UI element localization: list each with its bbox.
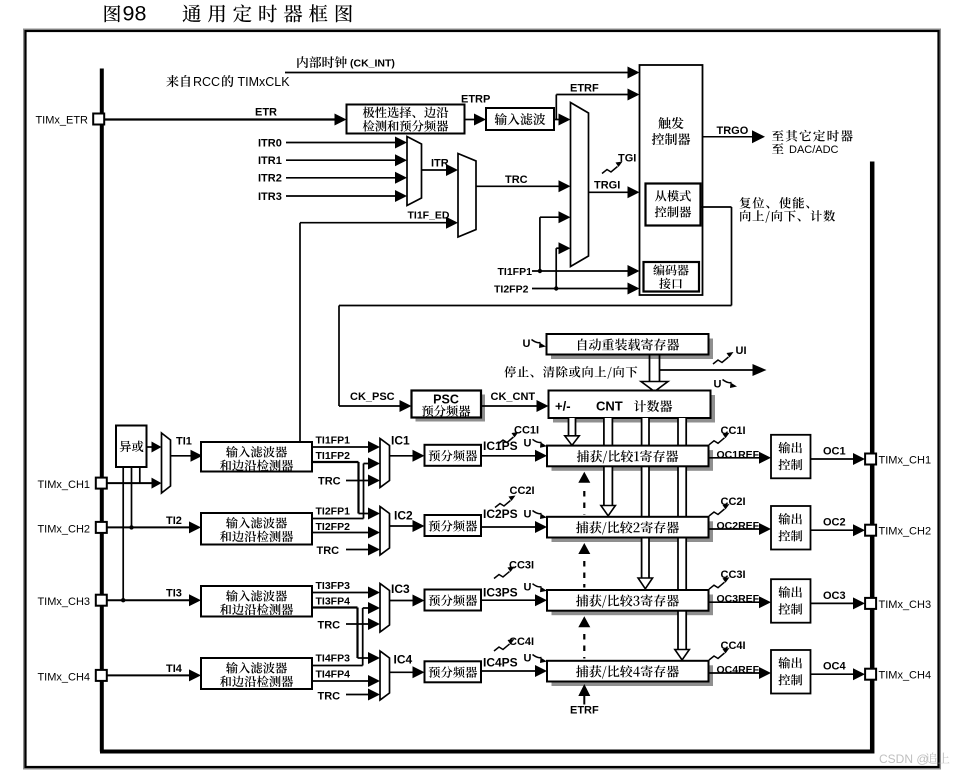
svg-text:CC2I: CC2I [721, 496, 746, 508]
svg-text:(CK_INT): (CK_INT) [350, 58, 395, 70]
pin TIMx_CH1 (right) [865, 454, 876, 465]
box output control CH2 (输出控制) [771, 506, 811, 550]
wire TI2FP2 [312, 532, 370, 534]
pin TIMx_CH4 (right) [865, 669, 876, 680]
svg-text:PSC: PSC [433, 393, 459, 407]
svg-text:CK_PSC: CK_PSC [350, 391, 395, 403]
svg-text:TI2FP2: TI2FP2 [316, 521, 351, 533]
wire TI1FP2 down to IC2 [312, 461, 359, 463]
svg-text:TI4FP4: TI4FP4 [316, 669, 351, 681]
label CC3I capture event (left) [494, 572, 510, 579]
svg-text:TI3FP4: TI3FP4 [316, 596, 351, 608]
wire TI2FP1 up to IC1 [312, 518, 364, 520]
svg-text:OC3REF: OC3REF [717, 593, 760, 605]
svg-text:98: 98 [123, 2, 147, 26]
wire TRC stub CH3 [346, 623, 370, 625]
wire IC4 to prescaler [390, 671, 415, 673]
wire ITR0 [286, 142, 397, 144]
svg-text:U: U [714, 379, 722, 391]
node XOR tap CH3 [121, 598, 125, 602]
label CC2I capture event (right) [709, 509, 725, 516]
svg-text:IC2PS: IC2PS [483, 507, 518, 521]
svg-text:TRC: TRC [318, 691, 341, 703]
label CC3I capture event (right) [709, 582, 725, 589]
wire TI3FP3 [312, 592, 370, 594]
svg-text:IC4: IC4 [394, 653, 413, 667]
svg-text:ETR: ETR [255, 107, 277, 119]
wire right bus (thick vertical) [870, 162, 875, 754]
svg-text:IC3PS: IC3PS [483, 586, 518, 600]
wire TI1F_ED [300, 222, 448, 224]
svg-text:TIMxCLK: TIMxCLK [238, 75, 291, 89]
box capture/compare register 2 (捕获/比较2寄存器) [547, 517, 709, 538]
wire IC2PS to capture register [481, 526, 537, 528]
box prescaler CH4 (预分频器) [425, 661, 482, 682]
wire slave-mode control to clock path [701, 206, 732, 208]
svg-text:ETRP: ETRP [461, 94, 490, 106]
box CNT counter (CNT计数器) [549, 391, 711, 419]
wire ITR3 [286, 195, 397, 197]
wire IC1 to prescaler [390, 455, 415, 457]
mux TI1 xor select [162, 433, 171, 493]
svg-text:CC1I: CC1I [514, 425, 539, 437]
wire ETR [105, 118, 337, 120]
wire TI1FP1 up to mux [539, 217, 541, 271]
box capture/compare 2 shadow [552, 521, 714, 542]
svg-text:TIMx_CH2: TIMx_CH2 [879, 526, 932, 538]
svg-text:TI2FP2: TI2FP2 [494, 284, 529, 296]
svg-text:RCC: RCC [193, 75, 220, 89]
wire CK_CNT [481, 405, 539, 407]
box input filter & edge detector CH1 [201, 442, 312, 472]
mux IC4 select [380, 651, 390, 700]
wire OC4REF [709, 672, 762, 674]
box slave mode controller (从模式控制器) [646, 184, 701, 226]
box input filter & edge detector CH4 [201, 658, 312, 689]
wire TI2 [107, 526, 191, 528]
pin TIMx_CH2 (left) [96, 522, 107, 533]
svg-text:TRC: TRC [505, 174, 528, 186]
svg-text:ITR3: ITR3 [258, 191, 282, 203]
box encoder interface (编码器接口) [644, 262, 700, 292]
label 复位、使能、向上/向下、计数 [740, 197, 810, 209]
svg-text:IC1: IC1 [391, 434, 410, 448]
wire ETRF up into CC4 [578, 684, 590, 696]
label CC4I capture event (left) [494, 644, 510, 651]
pin TIMx_CH3 (right) [865, 598, 876, 609]
svg-text:U: U [524, 653, 532, 665]
wire OC1 [811, 458, 856, 460]
wire OC3REF [709, 601, 762, 603]
label 来自RCC的TIMxCLK [166, 75, 190, 87]
svg-text:CC3I: CC3I [721, 569, 746, 581]
svg-text:TI1: TI1 [176, 436, 192, 448]
wire TI2FP2 stub to encoder [532, 288, 630, 290]
wire CH1 to xor mux [107, 482, 154, 484]
wire ITR1 [286, 159, 397, 161]
svg-text:TI2FP1: TI2FP1 [316, 506, 351, 518]
node TI2FP2 junction [554, 286, 558, 290]
svg-text:ETRF: ETRF [570, 705, 599, 717]
wire TRGI [589, 191, 630, 193]
box auto-reload register shadow [551, 339, 713, 360]
svg-text:CSDN @: CSDN @ [879, 752, 929, 766]
mux IC1 select [380, 439, 390, 488]
wire IC2 to prescaler [390, 525, 415, 527]
box prescaler CH1 (预分频器) [425, 445, 482, 466]
svg-text:ITR0: ITR0 [258, 137, 282, 149]
svg-text:CC4I: CC4I [509, 636, 534, 648]
svg-text:OC1: OC1 [823, 446, 846, 458]
wire bottom bus (thick horizontal) [100, 750, 872, 754]
box output control CH1 (输出控制) [771, 435, 811, 479]
label CC4I capture event (right) [709, 653, 725, 660]
label 至其它定时器 / 至 DAC/ADC [772, 130, 853, 142]
svg-text:TIMx_CH3: TIMx_CH3 [879, 599, 932, 611]
wire TI3 [107, 599, 191, 601]
wire TRC [476, 185, 561, 187]
label 内部时钟 (CK_INT) [297, 56, 347, 68]
svg-text:CC2I: CC2I [510, 485, 535, 497]
wire TI2FP2 up to mux [555, 248, 557, 288]
svg-text:TIMx_CH3: TIMx_CH3 [37, 596, 90, 608]
wire dashed capture trigger (between CC2 and CC3) [578, 543, 590, 554]
node XOR tap CH2 [129, 525, 133, 529]
wire TRC stub CH2 [346, 549, 370, 551]
arrow counter to CC4 (hollow column D) [678, 418, 686, 650]
svg-text:ITR1: ITR1 [258, 155, 282, 167]
svg-text:TI1FP2: TI1FP2 [316, 450, 351, 462]
wire IC4PS to capture register [481, 670, 537, 672]
box capture/compare register 3 (捕获/比较3寄存器) [547, 590, 709, 611]
svg-text:CC3I: CC3I [509, 560, 534, 572]
svg-text:TI4FP3: TI4FP3 [316, 653, 351, 665]
arrow counter to CC1 (hollow column A) [569, 418, 576, 436]
box input filter & edge detector CH2 [201, 513, 312, 545]
svg-text:OC4: OC4 [823, 661, 847, 673]
wire TI1 output [171, 455, 193, 457]
svg-text:TI4: TI4 [166, 663, 183, 675]
svg-text:IC4PS: IC4PS [483, 656, 518, 670]
svg-text:TI3FP3: TI3FP3 [316, 580, 351, 592]
box output control CH4 (输出控制) [771, 650, 811, 694]
box polarity selection (极性选择、边沿检测和预分频器) [347, 105, 465, 134]
svg-text:U: U [523, 338, 531, 350]
svg-text:DAC/ADC: DAC/ADC [789, 144, 839, 156]
svg-text:U: U [524, 509, 532, 521]
svg-text:TI3: TI3 [166, 588, 182, 600]
svg-text:TGI: TGI [618, 153, 636, 165]
label UI with event arrow [713, 357, 729, 364]
svg-text:CC4I: CC4I [721, 640, 746, 652]
wire TI4 [107, 674, 191, 676]
box capture/compare 1 shadow [552, 450, 714, 471]
wire OC1REF [709, 457, 762, 459]
wire TRC stub CH4 [346, 694, 370, 696]
svg-text:TI1FP1: TI1FP1 [316, 435, 351, 447]
wire update event out [660, 369, 753, 371]
box input filter & edge detector CH3 [201, 586, 312, 617]
label CC1I capture event (right) [709, 438, 725, 445]
svg-text:TI1F_ED: TI1F_ED [408, 210, 450, 222]
svg-text:TIMx_CH4: TIMx_CH4 [879, 670, 932, 682]
svg-text:TI1FP1: TI1FP1 [498, 266, 533, 278]
svg-text:CC1I: CC1I [721, 425, 746, 437]
svg-text:TRGI: TRGI [594, 180, 620, 192]
svg-text:U: U [524, 582, 532, 594]
box capture/compare register 1 (捕获/比较1寄存器) [547, 446, 709, 467]
svg-text:OC2: OC2 [823, 517, 846, 529]
svg-text:IC1PS: IC1PS [483, 439, 518, 453]
svg-text:ITR2: ITR2 [258, 173, 282, 185]
wire XOR output to mux [147, 446, 154, 448]
node TI1FP1 junction [538, 269, 542, 273]
wire ITR2 [286, 177, 397, 179]
wire ETRF up branch [555, 95, 557, 120]
box prescaler CH3 (预分频器) [425, 590, 482, 611]
title 图98 通用定时器框图 [105, 5, 121, 22]
svg-text:TRGO: TRGO [717, 125, 749, 137]
svg-text:TRC: TRC [317, 545, 340, 557]
box CNT counter shadow [553, 395, 715, 423]
box capture/compare 3 shadow [552, 595, 714, 616]
svg-text:IC3: IC3 [391, 582, 410, 596]
mux IC2 select [380, 507, 390, 556]
box input filter (输入滤波) [486, 108, 554, 130]
wire TRGO [703, 136, 755, 138]
wire ETRF to trigger mux [554, 119, 561, 121]
wire IC3 to prescaler [390, 600, 415, 602]
label CC2I capture event (left) [495, 501, 511, 508]
box trigger controller (触发控制器) [640, 65, 703, 295]
wire IC1PS to capture register [481, 455, 537, 457]
svg-text:IC2: IC2 [394, 509, 413, 523]
wire OC4 [811, 673, 856, 675]
wire TRC stub CH1 [346, 480, 370, 482]
wire IC3PS to capture register [481, 599, 537, 601]
svg-text:+/-: +/- [555, 399, 571, 414]
mux TRC select [458, 154, 476, 238]
box output control CH3 (输出控制) [771, 579, 811, 623]
wire TI1FP1 stub to encoder [532, 270, 630, 272]
svg-text:TRC: TRC [318, 476, 341, 488]
svg-text:TIMx_CH2: TIMx_CH2 [37, 523, 90, 535]
pin TIMx_ETR [93, 114, 104, 125]
pin TIMx_CH2 (right) [865, 525, 876, 536]
svg-text:U: U [524, 437, 532, 449]
mux IC3 select [380, 584, 390, 633]
label CC1I capture event (left) [498, 437, 514, 444]
mux ITR select [407, 137, 422, 206]
svg-text:TIMx_CH1: TIMx_CH1 [37, 479, 90, 491]
wire XOR taps [122, 467, 124, 600]
svg-text:CK_CNT: CK_CNT [491, 391, 536, 403]
arrow counter to CC2 (hollow column B) [604, 418, 613, 506]
wire CK_INT (internal clock) [285, 72, 630, 74]
label 停止、清除或向上/向下 [504, 366, 637, 379]
wire ITR [422, 169, 449, 171]
pin TIMx_CH3 (left) [96, 595, 107, 606]
wire TI3FP4 down to IC4 [312, 606, 358, 608]
box auto-reload register (自动重装载寄存器) [547, 334, 709, 355]
box capture/compare register 4 (捕获/比较4寄存器) [547, 661, 709, 682]
wire OC3 [811, 602, 856, 604]
box PSC prescaler (PSC预分频器) [412, 391, 482, 418]
arrow counter to CC3 (hollow column C) [642, 418, 649, 578]
svg-text:OC3: OC3 [823, 590, 846, 602]
box prescaler CH2 (预分频器) [425, 515, 482, 536]
wire OC2 [811, 529, 856, 531]
wire dashed capture trigger (between CC3 and CC4) [578, 616, 590, 627]
wire ETRP [465, 119, 477, 121]
pin TIMx_CH1 (left) [96, 478, 107, 489]
svg-text:CNT: CNT [596, 399, 623, 414]
wire TI4FP3 up to IC3 [312, 665, 363, 667]
wire TI1FP1 [312, 446, 370, 448]
wire dashed capture trigger (between CC1 and CC2) [578, 472, 590, 483]
svg-text:UI: UI [736, 345, 747, 357]
box PSC prescaler shadow [416, 395, 486, 422]
svg-text:TI2: TI2 [166, 515, 182, 527]
arrow auto-reload to counter (hollow) [649, 355, 651, 382]
wire TI4FP4 [312, 680, 370, 682]
wire CK_PSC [339, 405, 402, 407]
svg-text:OC1REF: OC1REF [717, 449, 760, 461]
label TGI with event arrow [602, 167, 618, 174]
box capture/compare 4 shadow [552, 665, 714, 686]
wire OC2REF [709, 528, 762, 530]
svg-text:TRC: TRC [318, 620, 341, 632]
svg-text:TIMx_CH4: TIMx_CH4 [37, 671, 90, 683]
pin TIMx_CH4 (left) [96, 670, 107, 681]
wire left bus (thick vertical) [100, 69, 104, 752]
box XOR (异或) [116, 426, 147, 468]
svg-text:TIMx_ETR: TIMx_ETR [35, 115, 88, 127]
svg-text:OC2REF: OC2REF [717, 520, 760, 532]
svg-text:ETRF: ETRF [570, 83, 599, 95]
mux trigger select (TRGI) [571, 103, 589, 267]
svg-text:OC4REF: OC4REF [717, 664, 760, 676]
svg-text:TIMx_CH1: TIMx_CH1 [879, 455, 932, 467]
